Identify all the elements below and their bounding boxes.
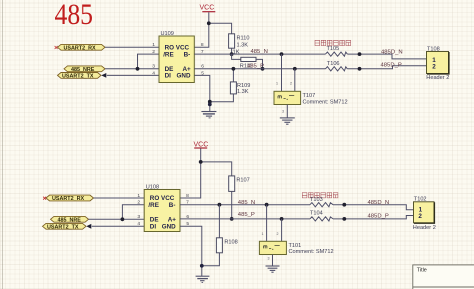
- svg-text:USART2_TX: USART2_TX: [62, 73, 94, 79]
- wire 485_N pin7 to fuse T105: [194, 53, 325, 55]
- wire 485_P fuse to header jog: [347, 66, 426, 69]
- junction 485_N after fuse: [358, 52, 362, 56]
- junction 485_N at R108 branch: [218, 203, 222, 207]
- fuse T103: [310, 197, 333, 207]
- junction at VCC branch: [207, 21, 211, 25]
- svg-text:8: 8: [186, 193, 189, 199]
- svg-text:1: 1: [137, 193, 140, 199]
- wire VCC2 junction to R107 top: [201, 162, 232, 176]
- junction pin5/R109: [208, 100, 212, 104]
- svg-text:DI: DI: [150, 224, 157, 231]
- junction 485_P at TVS branch: [293, 67, 297, 71]
- svg-text:Comment: SM712: Comment: SM712: [289, 249, 334, 255]
- svg-text:R108: R108: [224, 239, 237, 245]
- port 485_NRE (bottom): [51, 216, 89, 223]
- svg-text:1: 1: [262, 232, 264, 236]
- svg-text:3: 3: [137, 214, 140, 220]
- wire bottom USART2_TX to pin 4: [92, 225, 144, 227]
- wire R110 bottom to 485_N: [231, 48, 233, 54]
- svg-text:2: 2: [290, 82, 292, 86]
- svg-text:B-: B-: [169, 202, 176, 209]
- wire 485_N fuse to header jog: [347, 54, 426, 59]
- svg-text:1.3K: 1.3K: [237, 42, 249, 48]
- svg-text:1: 1: [276, 82, 278, 86]
- svg-text:4: 4: [152, 70, 155, 76]
- svg-text:VCC: VCC: [194, 141, 209, 148]
- junction 485_P after fuse: [358, 67, 362, 71]
- svg-text:VCC: VCC: [200, 4, 215, 11]
- resistor R111 with value 1K: [232, 49, 263, 69]
- wire 485_P pin6 to fuse T104: [180, 218, 310, 220]
- junction pin2 branch U108: [121, 217, 125, 221]
- port USART2_RX (top): [58, 44, 106, 51]
- junction 485_N at TVS branch: [265, 203, 269, 207]
- junction 485_P after fuse T104: [342, 217, 346, 221]
- wire 485_N pin7 to fuse T103: [180, 204, 310, 206]
- junction pin2 branch: [136, 67, 140, 71]
- IC U108: [137, 185, 189, 232]
- port 485_NRE (top): [64, 66, 105, 73]
- svg-text:485_P: 485_P: [238, 212, 255, 218]
- no-ERC marker at bottom USART2_RX: [43, 197, 46, 200]
- junction R111 at 485_P: [261, 67, 265, 71]
- wire VCC down to junction: [208, 12, 210, 23]
- svg-text:A+: A+: [168, 217, 177, 224]
- svg-text:GND: GND: [162, 224, 176, 231]
- junction R107 at 485_P: [230, 217, 234, 221]
- svg-text:3: 3: [282, 109, 284, 113]
- svg-text:Header 2: Header 2: [413, 225, 436, 231]
- svg-text:T104: T104: [310, 211, 323, 217]
- wire pin 5 of U108 to ground: [180, 226, 202, 276]
- wire 485_N to TVS T101 pin 1: [266, 205, 268, 242]
- svg-text:T105: T105: [327, 46, 340, 52]
- svg-text:1.3K: 1.3K: [237, 89, 249, 95]
- power VCC (bottom): [194, 141, 209, 148]
- svg-text:T107: T107: [303, 93, 316, 99]
- svg-text:DI: DI: [165, 73, 172, 80]
- svg-text:3: 3: [152, 64, 155, 70]
- wire 485_N fuse T103 to header jog: [333, 205, 414, 210]
- svg-text:2: 2: [152, 49, 155, 55]
- resistor R108: [202, 205, 238, 266]
- junction R110 at 485_N: [230, 52, 234, 56]
- wire 485_P pin6 to fuse T106: [194, 68, 325, 70]
- connector T102: [413, 196, 436, 230]
- svg-text:B-: B-: [184, 51, 191, 58]
- svg-text:DE: DE: [150, 217, 159, 224]
- label self-recovery fuse (bottom, Chinese): [302, 193, 338, 198]
- svg-text:R107: R107: [236, 178, 249, 184]
- junction R109 at 485_P: [232, 67, 236, 71]
- ground at U109 pin 5: [201, 112, 216, 118]
- TVS diode array T107: [274, 91, 348, 105]
- title block: [413, 265, 474, 289]
- TVS pin marks T101: [262, 232, 279, 261]
- ground at TVS T101: [266, 266, 280, 272]
- ground at U108 pin 5: [196, 276, 210, 282]
- svg-text:1: 1: [152, 42, 155, 48]
- resistor R107: [229, 176, 250, 192]
- wire bottom 485_NRE to pin 3: [89, 218, 145, 220]
- junction 485_N after fuse T103: [342, 203, 346, 207]
- svg-text:485D_N: 485D_N: [368, 200, 390, 206]
- wire R107 bottom to 485_P (crosses 485_N): [231, 191, 233, 219]
- connector T108: [426, 46, 449, 81]
- wire VCC2 junction to pin 8 of U108: [180, 162, 201, 198]
- port USART2_TX (top): [58, 73, 107, 80]
- resistor R109: [210, 69, 251, 102]
- wire USART2_RX to pin 1: [105, 46, 159, 48]
- wire VCC2 down to junction: [200, 148, 202, 162]
- svg-text:4: 4: [137, 221, 140, 227]
- svg-text:2: 2: [418, 213, 422, 220]
- wire 485_N to TVS T107 pin 1: [281, 54, 283, 91]
- svg-text:8: 8: [201, 42, 204, 48]
- wire 485_NRE to pin 3: [105, 68, 159, 70]
- wire USART2_TX to pin 4: [107, 74, 159, 76]
- svg-text:USART2_RX: USART2_RX: [52, 196, 84, 202]
- junction at VCC2 branch: [199, 160, 203, 164]
- wire VCC junction to pin 8: [194, 23, 209, 47]
- wire pin 2 branch to pin 3 net: [138, 54, 160, 69]
- svg-text:T101: T101: [289, 243, 302, 249]
- wire 485_P to TVS T107 pin 2: [294, 69, 296, 92]
- wire pin 2 branch of U108: [122, 205, 144, 220]
- svg-text:Comment: SM712: Comment: SM712: [303, 99, 348, 105]
- wire bottom USART2_RX to pin 1: [94, 197, 145, 199]
- junction pin5/R108 return: [200, 264, 204, 268]
- wire 485_P to TVS T101 pin 2: [281, 219, 283, 241]
- port USART2_RX (bottom): [46, 195, 94, 202]
- power VCC (top): [200, 4, 216, 11]
- svg-text:USART2_TX: USART2_TX: [47, 224, 79, 230]
- svg-text:2: 2: [277, 232, 279, 236]
- label self-recovery fuse (top, Chinese): [315, 40, 351, 45]
- port USART2_TX (bottom): [43, 223, 92, 230]
- wire 485_P fuse T104 to header jog: [333, 216, 414, 219]
- svg-text:485D_P: 485D_P: [381, 62, 402, 68]
- junction 485_P at TVS branch: [280, 217, 284, 221]
- resistor R110: [229, 34, 250, 49]
- wire TVS T107 to ground: [286, 105, 288, 118]
- fuse T105: [326, 46, 348, 56]
- svg-text:Title: Title: [417, 268, 427, 274]
- svg-text:USART2_RX: USART2_RX: [64, 45, 96, 51]
- wire pin 5 to ground: [194, 75, 210, 111]
- svg-text:3: 3: [268, 256, 270, 260]
- fuse T104: [310, 211, 333, 221]
- svg-text:GND: GND: [177, 73, 191, 80]
- svg-text:485D_P: 485D_P: [368, 214, 389, 220]
- junction 485_N at TVS branch: [280, 52, 284, 56]
- svg-text:R110: R110: [237, 35, 250, 41]
- svg-text:Header 2: Header 2: [426, 75, 449, 81]
- fuse T106: [326, 61, 348, 71]
- left sheet border: [2, 0, 3, 289]
- IC U109: [152, 31, 204, 83]
- svg-text:/RE: /RE: [148, 202, 159, 209]
- TVS pin marks T107: [276, 82, 292, 114]
- wire TVS T101 to ground: [272, 255, 274, 267]
- TVS diode array T101: [259, 241, 333, 255]
- svg-text:485_NRE: 485_NRE: [71, 67, 95, 73]
- ground at TVS T107: [280, 118, 295, 124]
- no-ERC marker at USART2_RX: [55, 46, 58, 49]
- wire VCC junction to R110 top: [209, 23, 232, 34]
- svg-text:T106: T106: [327, 61, 340, 67]
- svg-text:485: 485: [55, 0, 94, 31]
- svg-text:485_NRE: 485_NRE: [58, 217, 82, 223]
- svg-text:2: 2: [432, 63, 436, 70]
- svg-text:485D_N: 485D_N: [381, 49, 403, 55]
- svg-text:/RE: /RE: [163, 51, 174, 58]
- svg-text:2: 2: [137, 200, 140, 206]
- svg-text:1K: 1K: [233, 49, 240, 55]
